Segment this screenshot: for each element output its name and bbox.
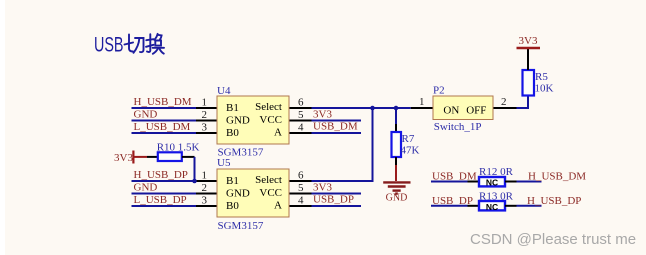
svg-text:U4: U4 xyxy=(217,85,231,97)
svg-text:R10 1.5K: R10 1.5K xyxy=(157,142,200,154)
svg-text:U5: U5 xyxy=(217,157,231,169)
svg-text:VCC: VCC xyxy=(259,114,282,126)
svg-text:R12 0R: R12 0R xyxy=(479,166,514,178)
svg-text:3V3: 3V3 xyxy=(313,109,332,121)
svg-text:3: 3 xyxy=(202,122,208,134)
R12 left pin xyxy=(468,181,480,183)
wire R10 down to H_USB_DP xyxy=(194,157,196,181)
svg-text:5: 5 xyxy=(298,109,304,121)
换 box xyxy=(155,41,161,46)
wire GND (U5 pin2 net) xyxy=(132,193,197,195)
wire GND (U4 pin2 net) xyxy=(132,120,197,122)
svg-text:6: 6 xyxy=(298,170,304,182)
R7 top pin xyxy=(395,124,397,132)
svg-text:NC: NC xyxy=(486,178,498,188)
U4 pin 2 xyxy=(196,120,217,122)
U4 pin 6 xyxy=(289,107,312,109)
wire P2 pin2 to R5 xyxy=(517,96,529,109)
R5 top pin xyxy=(527,49,529,70)
resistor R10 xyxy=(158,152,182,161)
svg-text:GND: GND xyxy=(226,188,250,200)
power stub red xyxy=(134,156,147,158)
U5 pin 2 xyxy=(196,193,217,195)
svg-text:Switch_1P: Switch_1P xyxy=(434,121,482,133)
svg-text:4: 4 xyxy=(298,195,304,207)
switch P2 body xyxy=(433,96,493,120)
U5 pin 4 xyxy=(289,205,312,207)
换 扌 xyxy=(146,39,153,40)
junction dot A xyxy=(370,106,375,111)
svg-text:USB_DM: USB_DM xyxy=(313,121,358,133)
svg-text:SGM3157: SGM3157 xyxy=(218,220,264,232)
svg-text:Select: Select xyxy=(255,174,282,186)
P2 pin 1 xyxy=(411,107,433,109)
op IC U4 body xyxy=(217,96,289,144)
svg-text:3: 3 xyxy=(202,195,208,207)
resistor R5 xyxy=(523,70,535,96)
wire H_USB_DP (U5 pin1 net) xyxy=(132,180,197,182)
ground symbol xyxy=(383,182,410,193)
junction dot B xyxy=(394,106,399,111)
wire USB_DP xyxy=(431,205,468,207)
wire 3V3 from U4 pin5 xyxy=(312,120,362,122)
wire 3V3 from U5 pin5 xyxy=(312,193,362,195)
svg-text:H_USB_DP: H_USB_DP xyxy=(134,169,188,181)
U4 pin 4 xyxy=(289,132,312,134)
svg-text:10K: 10K xyxy=(535,83,554,95)
op IC U5 body xyxy=(217,169,289,217)
svg-text:2: 2 xyxy=(202,109,208,121)
wire vertical to R7 xyxy=(395,108,397,124)
svg-text:GND: GND xyxy=(386,193,408,204)
R13 right pin xyxy=(505,205,517,207)
svg-text:P2: P2 xyxy=(433,85,445,97)
wire H_USB_DM (U4 pin1 net) xyxy=(132,107,197,109)
svg-text:H_USB_DM: H_USB_DM xyxy=(134,96,192,108)
svg-text:R5: R5 xyxy=(535,71,548,83)
U5 pin 1 xyxy=(196,180,217,182)
svg-text:5: 5 xyxy=(298,182,304,194)
svg-text:VCC: VCC xyxy=(259,187,282,199)
wire U4 pin6 to P2 xyxy=(312,107,411,109)
svg-text:B1: B1 xyxy=(226,102,239,114)
U4 pin 1 xyxy=(196,107,217,109)
svg-text:L_USB_DM: L_USB_DM xyxy=(134,121,191,133)
svg-text:2: 2 xyxy=(202,182,208,194)
切 left xyxy=(125,43,134,45)
svg-text:4: 4 xyxy=(298,122,304,134)
svg-text:B0: B0 xyxy=(226,127,239,139)
R10 right pin xyxy=(182,156,195,158)
svg-text:3V3: 3V3 xyxy=(519,35,538,47)
U5 pin 5 xyxy=(289,193,312,195)
svg-text:H_USB_DP: H_USB_DP xyxy=(527,195,581,207)
svg-text:USB: USB xyxy=(94,34,124,57)
junction dot C xyxy=(192,179,197,184)
svg-text:3V3: 3V3 xyxy=(313,182,332,194)
svg-text:NC: NC xyxy=(486,202,498,212)
resistor R7 xyxy=(392,132,402,157)
wire L_USB_DP (U5 pin3 net) xyxy=(132,205,197,207)
svg-text:GND: GND xyxy=(226,115,250,127)
svg-text:1: 1 xyxy=(202,97,208,109)
svg-text:6: 6 xyxy=(298,97,304,109)
power 3V3 bar (left, vertical) xyxy=(132,151,134,164)
svg-text:CSDN @Please trust me: CSDN @Please trust me xyxy=(470,231,636,248)
svg-text:L_USB_DP: L_USB_DP xyxy=(134,194,187,206)
svg-text:3V3: 3V3 xyxy=(114,152,133,164)
svg-text:A: A xyxy=(274,127,282,139)
resistor R12 (NC) xyxy=(479,177,505,186)
R12 right pin xyxy=(505,181,517,183)
svg-text:GND: GND xyxy=(134,182,158,194)
svg-text:R13 0R: R13 0R xyxy=(479,190,514,202)
svg-text:47K: 47K xyxy=(401,145,420,157)
U4 pin 5 xyxy=(289,120,312,122)
gnd stem xyxy=(395,165,397,181)
wire vertical to U5 pin6 xyxy=(312,108,373,181)
svg-text:1: 1 xyxy=(202,170,208,182)
wire USB_DP from U5 pin4 xyxy=(312,205,362,207)
svg-text:A: A xyxy=(274,200,282,212)
R13 left pin xyxy=(468,205,480,207)
R7 bottom pin xyxy=(395,157,397,165)
svg-text:1: 1 xyxy=(419,96,425,108)
svg-text:Select: Select xyxy=(255,101,282,113)
svg-text:H_USB_DM: H_USB_DM xyxy=(528,171,586,183)
U5 pin 3 xyxy=(196,205,217,207)
svg-text:ON: ON xyxy=(443,105,459,117)
R10 left pin xyxy=(147,156,158,158)
换 大 xyxy=(153,47,164,49)
wire L_USB_DM (U4 pin3 net) xyxy=(132,132,197,134)
power 3V3 bar (top right) xyxy=(517,47,541,50)
resistor R13 (NC) xyxy=(479,201,505,210)
svg-text:USB_DP: USB_DP xyxy=(313,194,354,206)
wire USB_DM from U4 pin4 xyxy=(312,132,362,134)
换 ⺈ xyxy=(154,34,157,40)
U5 pin 6 xyxy=(289,180,312,182)
svg-text:B1: B1 xyxy=(226,175,239,187)
切 right 刀 xyxy=(135,38,144,52)
svg-text:OFF: OFF xyxy=(466,105,486,117)
U4 pin 3 xyxy=(196,132,217,134)
wire H_USB_DM xyxy=(517,181,542,183)
P2 pin 2 xyxy=(493,107,517,109)
wire H_USB_DP xyxy=(517,205,542,207)
svg-text:R7: R7 xyxy=(402,133,415,145)
title USB切换 xyxy=(94,34,164,57)
svg-text:B0: B0 xyxy=(226,200,239,212)
svg-text:GND: GND xyxy=(134,109,158,121)
wire USB_DM xyxy=(431,181,468,183)
svg-text:2: 2 xyxy=(501,96,507,108)
